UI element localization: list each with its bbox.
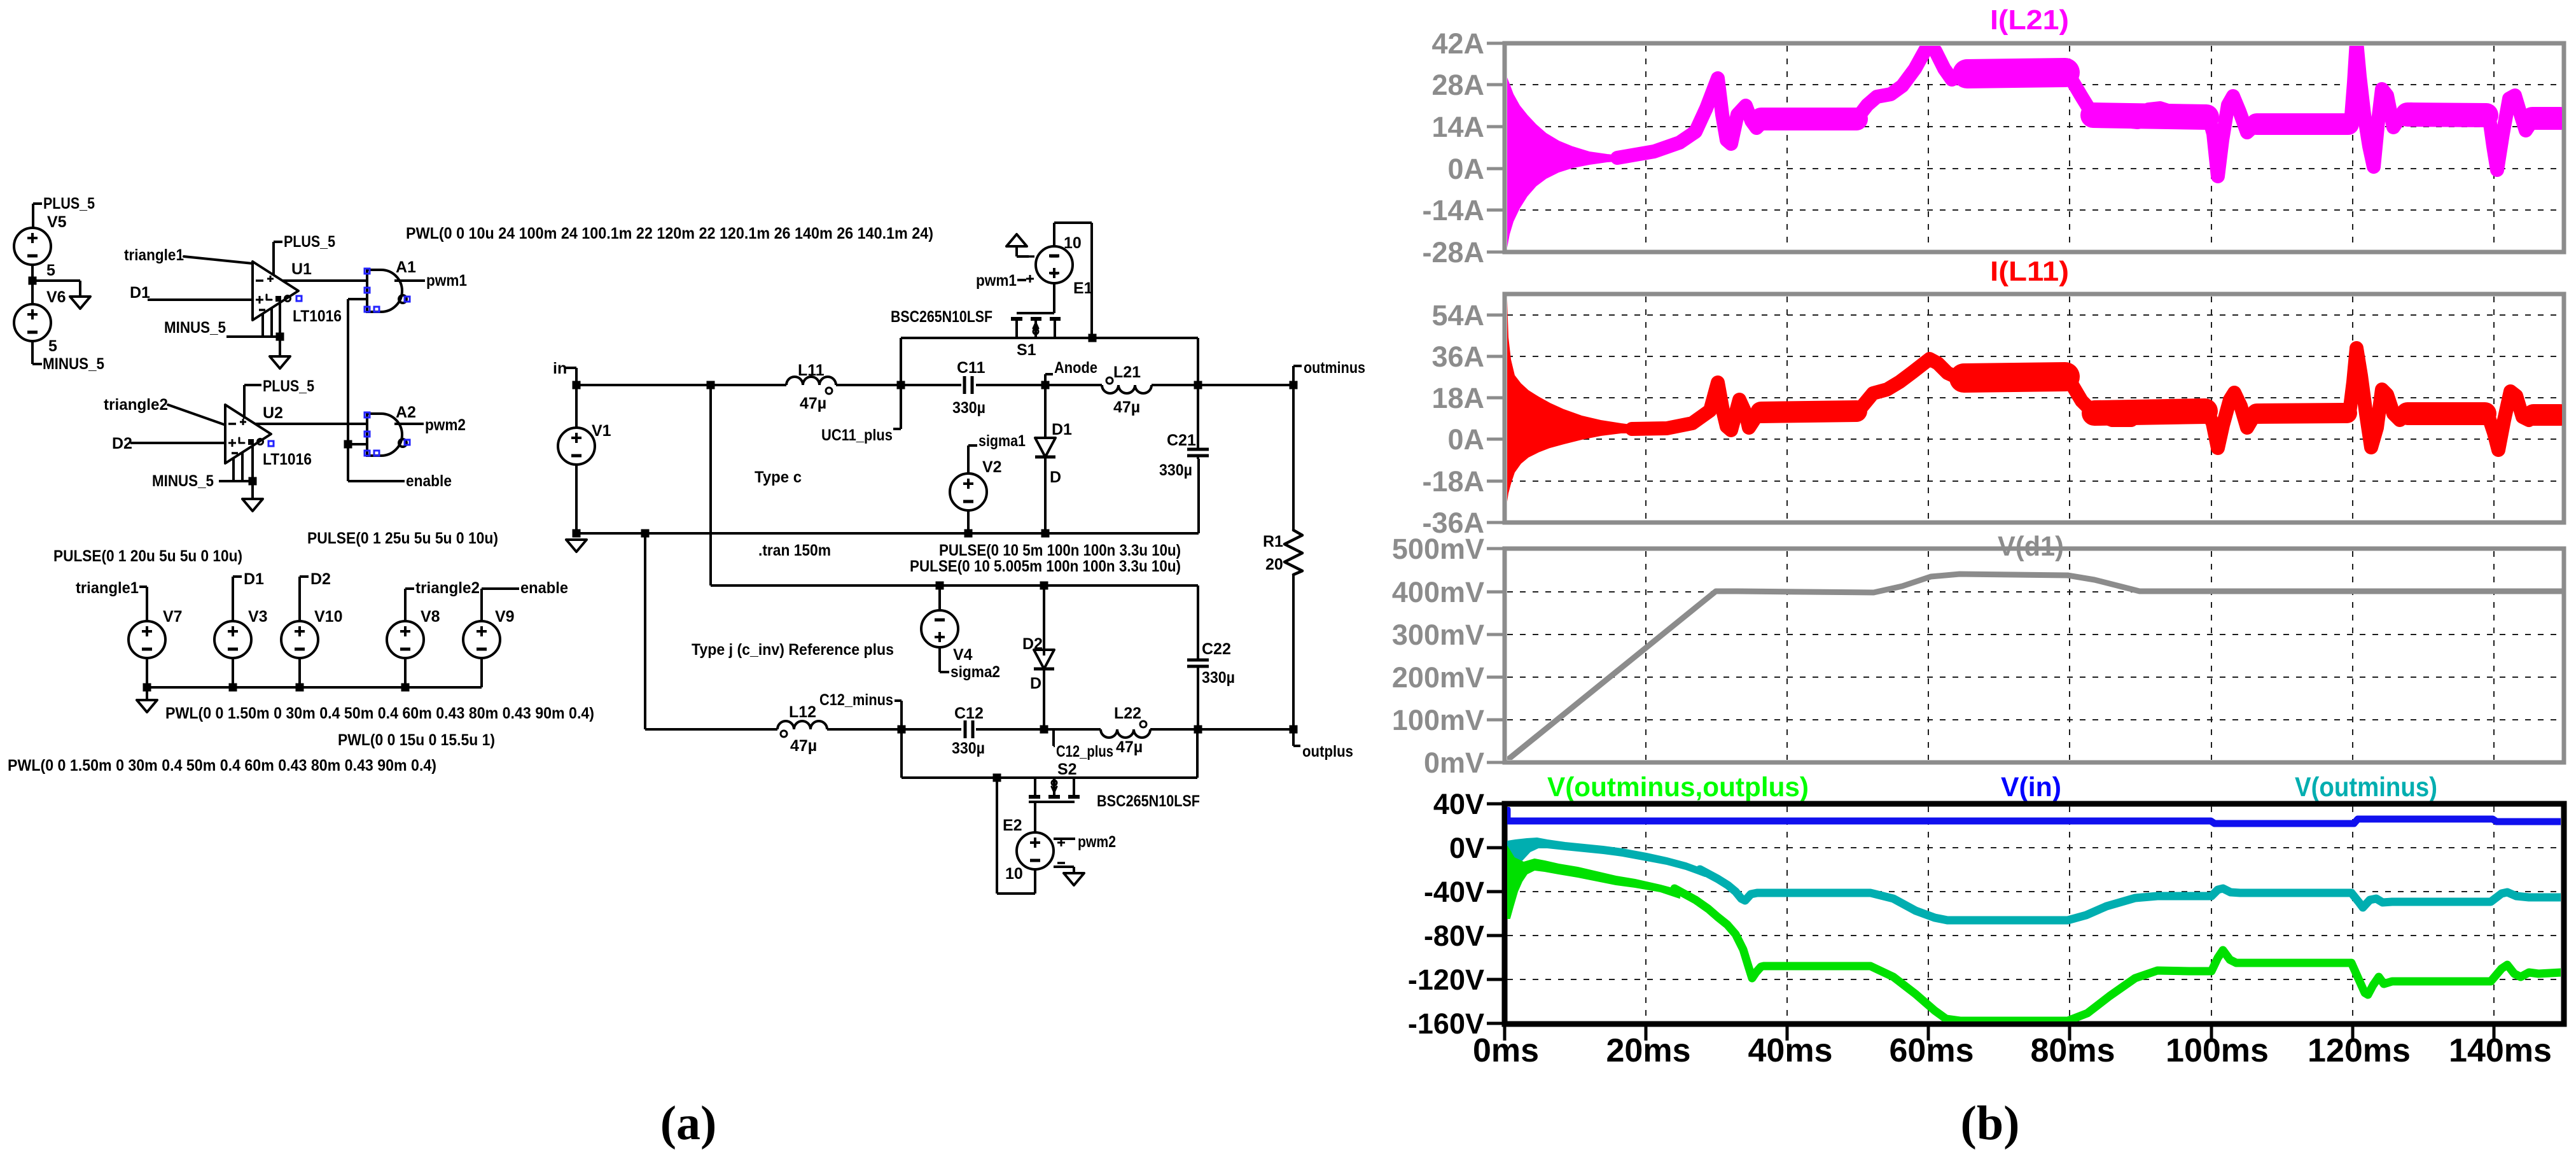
svg-text:100ms: 100ms xyxy=(2166,1032,2269,1069)
label MINUS_5 xyxy=(152,472,214,490)
label E1 xyxy=(1073,279,1093,297)
wire V4 bottom sigma2 xyxy=(940,647,949,672)
x axis labels xyxy=(1473,1032,2552,1069)
wire ground bus main xyxy=(576,459,1199,533)
svg-text:V3: V3 xyxy=(248,608,268,626)
label S2 xyxy=(1057,761,1077,778)
label 330u C21 xyxy=(1159,461,1192,479)
svg-text:L21: L21 xyxy=(1113,363,1141,381)
ground xyxy=(1064,873,1084,885)
label PLUS_5 xyxy=(43,195,95,213)
junction gnd bus 1014 xyxy=(641,529,650,538)
wire triangle1 to U1 in- xyxy=(184,256,253,263)
junction node 5 xyxy=(29,277,37,285)
svg-text:L11: L11 xyxy=(798,361,825,379)
wire net PLUS_5 to U2 V+ xyxy=(244,385,261,419)
label R1 xyxy=(1263,533,1283,550)
capacitor C22 xyxy=(1187,660,1209,666)
svg-text:outplus: outplus xyxy=(1302,743,1353,761)
plot frame panel2 xyxy=(1505,294,2564,522)
svg-text:V1: V1 xyxy=(592,422,611,440)
curve I(L21) startup envelope xyxy=(1507,78,1626,248)
wire V5 minus to node 5 xyxy=(31,265,34,281)
label triangle2 xyxy=(104,396,168,414)
svg-text:MINUS_5: MINUS_5 xyxy=(152,472,214,490)
label pwm1 xyxy=(976,272,1017,290)
svg-text:330µ: 330µ xyxy=(1202,669,1235,687)
legend V(outminus) xyxy=(2295,772,2437,803)
svg-text:C22: C22 xyxy=(1202,640,1231,658)
label triangle2 xyxy=(415,579,480,597)
label 5 xyxy=(48,337,57,355)
svg-text:54A: 54A xyxy=(1431,299,1484,332)
label PWL V1 xyxy=(406,225,933,242)
label C22 xyxy=(1202,640,1231,658)
plot title I(L21) xyxy=(1990,4,2069,36)
ground xyxy=(270,356,290,368)
svg-text:PULSE(0 1 20u 5u 5u 0 10u): PULSE(0 1 20u 5u 5u 0 10u) xyxy=(53,547,242,565)
svg-text:PWL(0 0 1.50m 0 30m 0.4 50m 0.: PWL(0 0 1.50m 0 30m 0.4 50m 0.4 60m 0.43… xyxy=(165,705,594,722)
svg-text:D1: D1 xyxy=(244,570,264,588)
svg-text:D1: D1 xyxy=(1052,421,1072,438)
junction Anode node xyxy=(1041,381,1050,389)
svg-text:I(L11): I(L11) xyxy=(1990,256,2069,287)
svg-text:0mV: 0mV xyxy=(1424,747,1484,779)
svg-text:500mV: 500mV xyxy=(1392,533,1484,565)
svg-text:D1: D1 xyxy=(130,284,150,302)
grid panel2 xyxy=(1507,297,2561,520)
svg-text:-80V: -80V xyxy=(1424,920,1484,952)
svg-text:V5: V5 xyxy=(47,213,67,231)
label 47u L22 xyxy=(1116,738,1143,756)
voltage source V5 xyxy=(14,228,51,265)
transistor S1 xyxy=(1011,313,1061,338)
wire V8 top hook xyxy=(405,589,414,621)
wire E2 gate wire xyxy=(1034,802,1036,832)
label V7 xyxy=(163,608,183,626)
label PWL3 xyxy=(8,757,436,775)
label 10 E2 xyxy=(1005,865,1023,883)
wire S2 source rail xyxy=(902,729,1197,778)
svg-text:MINUS_5: MINUS_5 xyxy=(43,355,104,373)
label Type c xyxy=(755,468,802,486)
svg-text:V2: V2 xyxy=(982,458,1002,476)
svg-text:80ms: 80ms xyxy=(2031,1032,2115,1069)
wire V1 bottom xyxy=(575,465,578,533)
wire Anode hook xyxy=(1045,374,1053,385)
junction C12 right xyxy=(1040,726,1048,734)
svg-text:47µ: 47µ xyxy=(790,737,817,755)
svg-text:5: 5 xyxy=(46,262,55,279)
svg-text:Type j (c_inv) Reference plus: Type j (c_inv) Reference plus xyxy=(692,641,894,659)
y axis labels panel2 xyxy=(1422,299,1505,539)
transistor S2 xyxy=(1029,778,1080,802)
junction V3 bus xyxy=(229,684,237,692)
label (b) xyxy=(1961,1097,2020,1150)
svg-text:LT1016: LT1016 xyxy=(293,307,342,325)
svg-text:LT1016: LT1016 xyxy=(263,451,312,468)
svg-text:47µ: 47µ xyxy=(1113,398,1140,416)
svg-text:triangle2: triangle2 xyxy=(104,396,168,414)
label V9 xyxy=(495,608,515,626)
label D1 xyxy=(130,284,150,302)
wire V2 bottom xyxy=(967,510,970,533)
junction C12 left xyxy=(898,726,906,734)
curve V(in) xyxy=(1507,810,2561,824)
svg-text:E2: E2 xyxy=(1003,817,1022,834)
wire sigma1 hook xyxy=(968,445,977,473)
voltage source E2 xyxy=(1017,832,1054,869)
label Type j xyxy=(692,641,894,659)
junction U2 gnd xyxy=(249,477,257,486)
wire V4 top xyxy=(938,586,941,610)
label A2 xyxy=(396,403,416,421)
inductor L11 xyxy=(786,377,836,394)
voltage source V6 xyxy=(14,304,51,341)
wire C21 stubs xyxy=(1197,385,1199,459)
svg-text:60ms: 60ms xyxy=(1890,1032,1974,1069)
voltage source E1 xyxy=(1036,246,1073,283)
plot frame panel3 xyxy=(1505,549,2564,762)
wire triangle2 to U2 in- xyxy=(168,405,224,424)
y axis labels panel4 xyxy=(1408,788,1505,1040)
wire S1 drain xyxy=(1055,338,1198,385)
label V8 xyxy=(421,608,440,626)
capacitor C11 xyxy=(964,376,972,394)
junction D2 top xyxy=(1040,582,1048,590)
label enable xyxy=(520,579,568,597)
legend V(outminus,outplus) xyxy=(1547,772,1809,803)
svg-text:S1: S1 xyxy=(1017,341,1036,359)
svg-text:PWL(0 0 15u 0 15.5u 1): PWL(0 0 15u 0 15.5u 1) xyxy=(338,731,495,749)
svg-text:V4: V4 xyxy=(953,646,973,664)
label triangle1 xyxy=(124,246,184,264)
wire U2 V- / minus5 xyxy=(219,452,253,481)
svg-text:V7: V7 xyxy=(163,608,183,626)
capacitor C21 xyxy=(1187,449,1209,456)
label pwm1 xyxy=(426,272,467,290)
op-amp U2 xyxy=(225,405,271,463)
pin marker U2 out xyxy=(268,441,274,446)
curve V(d1) xyxy=(1506,574,2563,761)
capacitor C12 xyxy=(965,720,973,738)
label LT1016 xyxy=(263,451,312,468)
pin marker U1 out xyxy=(296,296,302,301)
svg-text:0A: 0A xyxy=(1447,153,1484,185)
svg-text:20ms: 20ms xyxy=(1606,1032,1691,1069)
curve V(outminus,outplus) startup band xyxy=(1507,846,1680,918)
wire bus drop to bottom rail xyxy=(644,533,646,729)
svg-text:V6: V6 xyxy=(46,288,66,306)
curve I(L11) ripple bands xyxy=(1761,377,2560,415)
svg-text:UC11_plus: UC11_plus xyxy=(821,426,893,444)
wire V9 top hook xyxy=(482,589,519,621)
svg-text:-14A: -14A xyxy=(1422,194,1484,227)
wire E1 ctl minus to gnd xyxy=(1017,246,1029,256)
ground xyxy=(566,540,587,552)
svg-text:-18A: -18A xyxy=(1422,465,1484,498)
svg-text:400mV: 400mV xyxy=(1392,576,1484,608)
junction V1 gnd xyxy=(573,529,581,538)
label BSC265N10LSF xyxy=(891,308,992,326)
wire V7 top hook xyxy=(139,587,147,621)
label 330u C22 xyxy=(1202,669,1235,687)
svg-text:C12_plus: C12_plus xyxy=(1056,743,1113,761)
voltage source V2 xyxy=(950,473,987,510)
svg-text:40ms: 40ms xyxy=(1748,1032,1833,1069)
grid panel1 xyxy=(1507,46,2561,249)
curve I(L21) xyxy=(1617,42,2561,176)
label C11 xyxy=(957,359,985,377)
svg-text:enable: enable xyxy=(520,579,568,597)
label V2 xyxy=(982,458,1002,476)
svg-text:-120V: -120V xyxy=(1408,964,1484,996)
label D1 xyxy=(244,570,264,588)
label (a) xyxy=(660,1097,717,1150)
wire E1 out bottom to gate xyxy=(1053,283,1055,313)
ground xyxy=(242,499,263,511)
op-amp U1 xyxy=(253,262,298,320)
label 10 E1 xyxy=(1064,234,1082,252)
label D2 xyxy=(112,435,132,452)
label BSC265N10LSF xyxy=(1097,792,1200,810)
label V10 xyxy=(314,608,342,626)
svg-text:pwm2: pwm2 xyxy=(425,416,466,434)
label PLUS_5 xyxy=(284,233,335,251)
wire D1 to U1 in+ xyxy=(148,298,253,301)
wire net PLUS_5 to U1 V+ xyxy=(274,242,282,276)
wire C22 stubs xyxy=(1197,657,1199,729)
label pwm2 xyxy=(425,416,466,434)
svg-text:BSC265N10LSF: BSC265N10LSF xyxy=(1097,792,1200,810)
svg-text:V(outminus): V(outminus) xyxy=(2295,772,2437,803)
label LT1016 xyxy=(293,307,342,325)
voltage source V7 xyxy=(129,621,165,658)
svg-text:PWL(0 0 1.50m 0 30m 0.4 50m 0.: PWL(0 0 1.50m 0 30m 0.4 50m 0.4 60m 0.43… xyxy=(8,757,436,775)
junction enable at A2 xyxy=(344,440,352,449)
svg-text:U1: U1 xyxy=(291,260,312,278)
pin markers A1 xyxy=(365,269,410,312)
plot frame panel4 xyxy=(1505,804,2564,1024)
svg-text:0ms: 0ms xyxy=(1473,1032,1539,1069)
svg-text:L12: L12 xyxy=(789,703,816,721)
junction S1 drain E1 xyxy=(1089,334,1097,342)
inductor L12 xyxy=(777,721,827,737)
label V1 xyxy=(592,422,611,440)
label in xyxy=(553,360,567,377)
label enable xyxy=(406,472,452,490)
label 330u C12 xyxy=(952,740,985,757)
ground xyxy=(1006,234,1027,246)
junction R1 bottom xyxy=(1290,726,1298,734)
wire bus to ground xyxy=(146,687,148,700)
wire node 5 to ground xyxy=(32,281,80,297)
junction C11 left xyxy=(897,381,905,389)
svg-text:in: in xyxy=(553,360,567,377)
logic gate A1 xyxy=(367,270,407,312)
label MINUS_5 xyxy=(164,319,226,337)
svg-text:D: D xyxy=(1050,468,1061,486)
wire E1 out top xyxy=(1054,223,1092,338)
label UC11_plus xyxy=(821,426,893,444)
svg-text:Anode: Anode xyxy=(1054,359,1097,377)
svg-text:triangle1: triangle1 xyxy=(124,246,184,264)
label sigma1 xyxy=(978,432,1026,450)
label L21 xyxy=(1113,363,1141,381)
voltage source V1 xyxy=(558,428,595,465)
curve V(outminus) startup band xyxy=(1507,838,1705,876)
curve V(outminus) xyxy=(1700,869,2561,920)
svg-text:V9: V9 xyxy=(495,608,515,626)
wire in hook xyxy=(565,368,576,385)
svg-text:E1: E1 xyxy=(1073,279,1093,297)
wire C11 left to S1 source xyxy=(901,338,1092,385)
svg-text:A1: A1 xyxy=(396,258,416,276)
junction in node xyxy=(573,381,581,389)
wire E2 ctl minus to gnd xyxy=(1054,867,1074,873)
svg-text:V(in): V(in) xyxy=(2001,772,2061,803)
junction S2 source xyxy=(993,774,1001,782)
svg-text:0A: 0A xyxy=(1447,423,1484,456)
label S1 xyxy=(1017,341,1036,359)
junction outminus top xyxy=(1290,381,1298,389)
svg-text:0V: 0V xyxy=(1449,832,1484,864)
wire pwm1 to E1 xyxy=(1017,279,1026,281)
label 5 xyxy=(46,262,55,279)
svg-text:C12: C12 xyxy=(954,705,984,722)
svg-text:Type c: Type c xyxy=(755,468,802,486)
wire V1 top xyxy=(575,385,578,428)
svg-text:10: 10 xyxy=(1064,234,1082,252)
svg-text:sigma1: sigma1 xyxy=(978,432,1026,450)
control minus E2 xyxy=(1057,862,1065,864)
wire R1 top xyxy=(1292,385,1295,530)
svg-text:L22: L22 xyxy=(1114,705,1141,722)
label 47u L11 xyxy=(800,395,826,412)
wire S2 drain xyxy=(1074,729,1197,778)
svg-text:330µ: 330µ xyxy=(1159,461,1192,479)
label L11 xyxy=(798,361,825,379)
svg-text:PLUS_5: PLUS_5 xyxy=(263,377,314,395)
resistor R1 xyxy=(1285,530,1302,575)
wire D2 anode xyxy=(1043,586,1045,656)
voltage source V10 xyxy=(281,621,318,658)
pin markers A2 xyxy=(365,412,410,456)
label E2 xyxy=(1003,817,1022,834)
label D2 xyxy=(310,570,331,588)
wire E2 out bottom xyxy=(997,778,1035,894)
label tran xyxy=(758,542,831,559)
label D2 xyxy=(1022,635,1043,653)
x axis ticks xyxy=(1505,1027,2494,1041)
wire U2 output to A2 xyxy=(255,423,367,425)
wire net PLUS_5 (V5 top) xyxy=(33,204,42,228)
wire pwm2 to E2 xyxy=(1054,838,1075,840)
legend V(in) xyxy=(2001,772,2061,803)
svg-text:5: 5 xyxy=(48,337,57,355)
svg-text:PULSE(0 1 25u 5u 5u 0 10u): PULSE(0 1 25u 5u 5u 0 10u) xyxy=(307,529,498,547)
svg-text:triangle2: triangle2 xyxy=(415,579,480,597)
grid panel3 xyxy=(1507,551,2561,760)
svg-text:C12_minus: C12_minus xyxy=(819,691,893,709)
svg-text:V8: V8 xyxy=(421,608,440,626)
junction U1 gnd xyxy=(276,333,284,341)
label V3 xyxy=(248,608,268,626)
svg-text:36A: 36A xyxy=(1431,340,1484,373)
svg-text:pwm2: pwm2 xyxy=(1078,833,1116,851)
svg-text:D: D xyxy=(1030,675,1041,692)
svg-text:I(L21): I(L21) xyxy=(1990,4,2069,36)
svg-text:U2: U2 xyxy=(263,404,283,422)
plot title V(d1) xyxy=(1998,531,2064,562)
svg-text:20: 20 xyxy=(1265,556,1283,573)
junction V10 bus xyxy=(296,684,304,692)
label V5 xyxy=(47,213,67,231)
wire outminus hook xyxy=(1293,366,1302,385)
label MINUS_5 xyxy=(43,355,104,373)
wire A1 output pwm1 xyxy=(394,279,425,282)
wire U1 gnd pin xyxy=(279,303,281,356)
svg-text:140ms: 140ms xyxy=(2449,1032,2552,1069)
label PULSE V2 xyxy=(939,542,1181,559)
wire U2 gnd pin xyxy=(251,445,254,499)
svg-text:200mV: 200mV xyxy=(1392,661,1484,694)
svg-text:.tran 150m: .tran 150m xyxy=(758,542,831,559)
junction V4 top xyxy=(936,582,944,590)
svg-text:PWL(0 0 10u 24 100m 24 100.1m: PWL(0 0 10u 24 100m 24 100.1m 22 120m 22… xyxy=(406,225,933,242)
svg-text:42A: 42A xyxy=(1431,27,1484,60)
svg-text:-28A: -28A xyxy=(1422,236,1484,269)
svg-text:MINUS_5: MINUS_5 xyxy=(164,319,226,337)
label PWL1 xyxy=(165,705,594,722)
label C12 xyxy=(954,705,984,722)
svg-text:PULSE(0 10 5.005m 100n 100n 3.: PULSE(0 10 5.005m 100n 100n 3.3u 10u) xyxy=(910,557,1181,575)
junction C22 bottom xyxy=(1194,726,1202,734)
curve I(L11) xyxy=(1632,348,2561,450)
y axis labels panel1 xyxy=(1422,27,1505,269)
plot frame panel1 xyxy=(1505,43,2564,252)
grid panel4 xyxy=(1507,806,2561,1021)
svg-text:S2: S2 xyxy=(1057,761,1077,778)
wire D2 cathode xyxy=(1043,669,1045,729)
label D xyxy=(1050,468,1061,486)
label U1 xyxy=(291,260,312,278)
junction V7 bus xyxy=(143,684,151,692)
svg-text:triangle1: triangle1 xyxy=(76,579,139,597)
svg-text:D2: D2 xyxy=(310,570,331,588)
svg-text:enable: enable xyxy=(406,472,452,490)
label C12_plus xyxy=(1056,743,1113,761)
wire V10 top hook xyxy=(300,577,309,621)
voltage source V9 xyxy=(463,621,500,658)
svg-text:(a): (a) xyxy=(660,1097,717,1150)
wire outplus hook xyxy=(1293,729,1300,746)
label 47u L21 xyxy=(1113,398,1140,416)
label A1 xyxy=(396,258,416,276)
wire V3 top hook xyxy=(233,577,242,621)
ground xyxy=(137,700,157,712)
wire D2 to U2 in+ xyxy=(130,442,225,444)
svg-text:pwm1: pwm1 xyxy=(976,272,1017,290)
logic gate A2 xyxy=(367,414,407,456)
label pwm2 xyxy=(1078,833,1116,851)
svg-text:100mV: 100mV xyxy=(1392,704,1484,736)
label V6 xyxy=(46,288,66,306)
svg-text:10: 10 xyxy=(1005,865,1023,883)
label L12 xyxy=(789,703,816,721)
control plus E1 xyxy=(1026,275,1034,283)
label PLUS_5 xyxy=(263,377,314,395)
